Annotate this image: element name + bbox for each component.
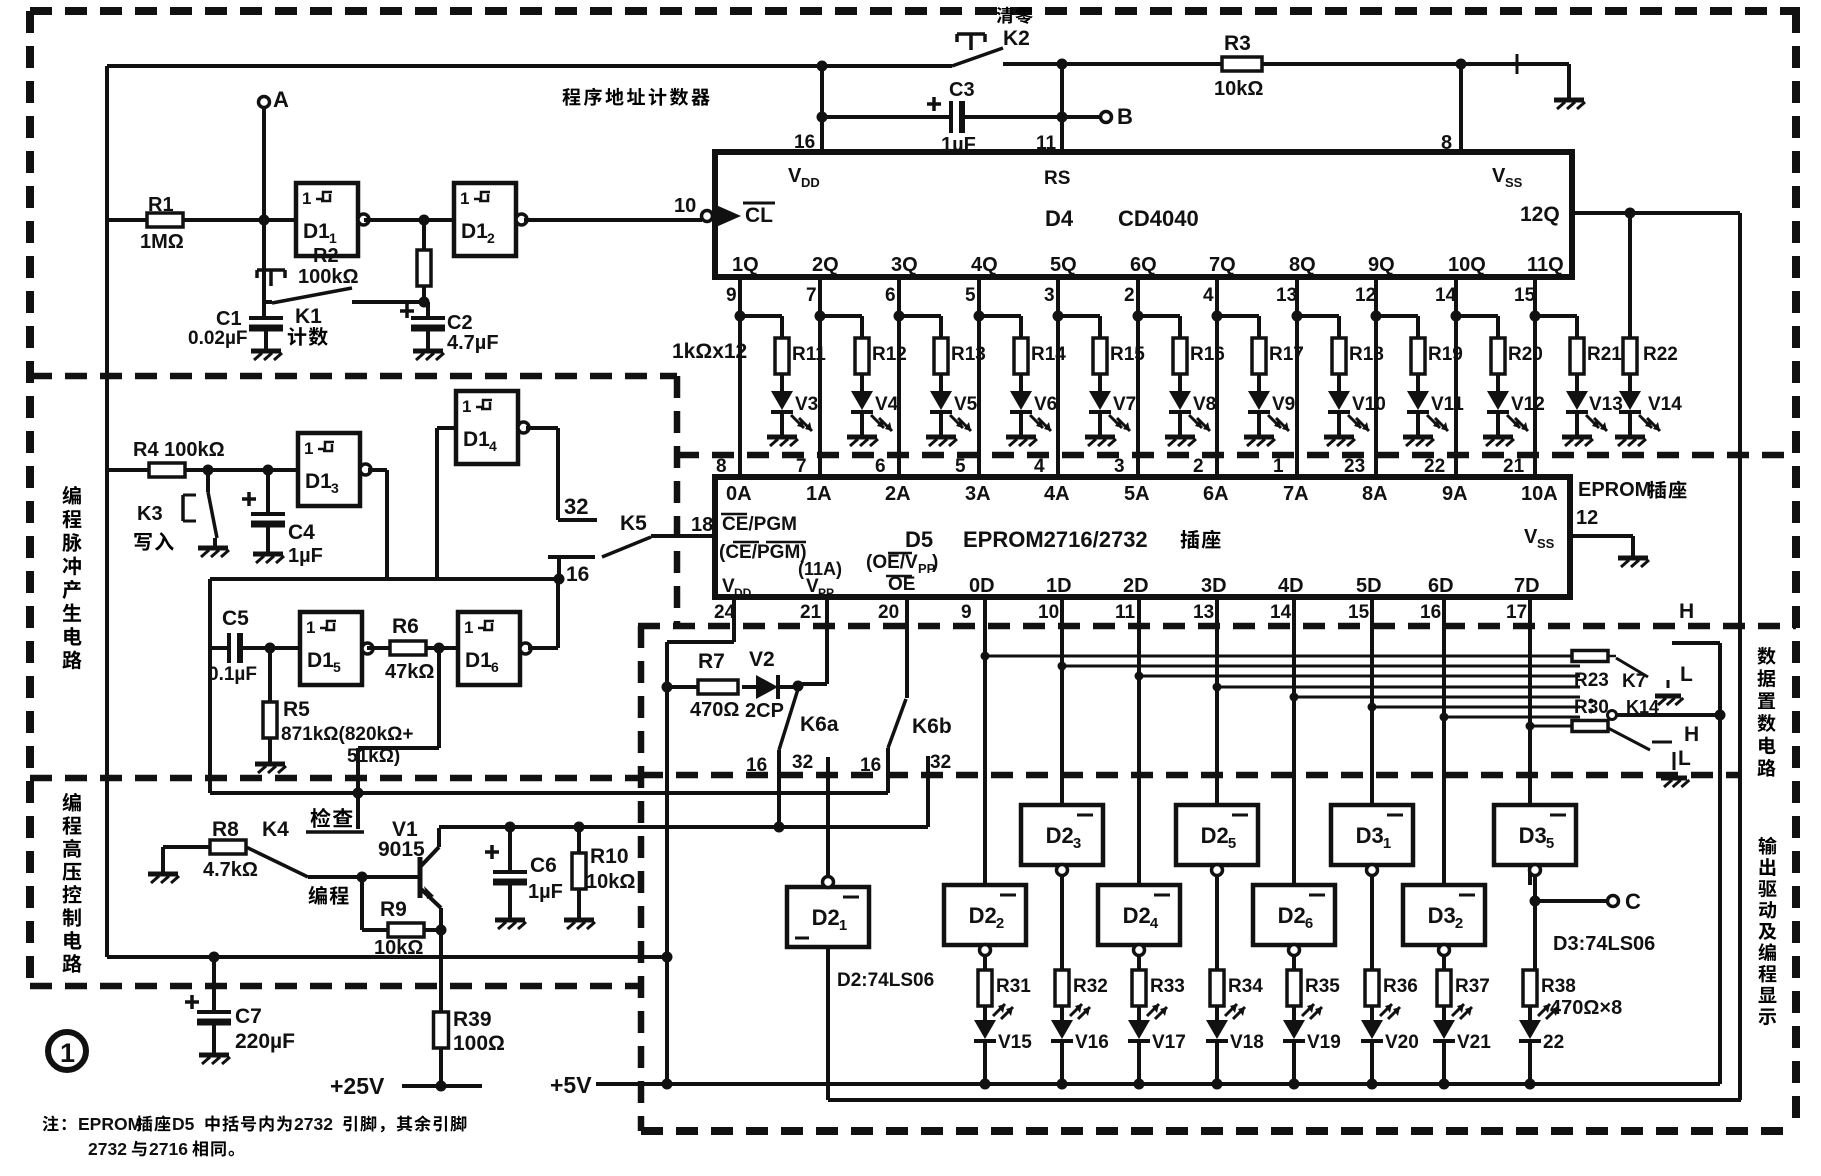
svg-text:1A: 1A: [806, 483, 832, 505]
resistor R4: [149, 463, 185, 477]
svg-text:D2:74LS06: D2:74LS06: [837, 970, 934, 991]
svg-text:5A: 5A: [1124, 483, 1150, 505]
switch K2 (clear): [957, 32, 985, 36]
svg-text:R31: R31: [996, 976, 1031, 997]
svg-text:7Q: 7Q: [1209, 254, 1236, 276]
label programming high-voltage control block: [62, 793, 80, 812]
svg-text:16: 16: [566, 563, 589, 586]
contact 32 of K5: [558, 518, 597, 522]
LED V18: [1215, 1006, 1219, 1020]
wire D24 output: [1137, 956, 1141, 970]
svg-text:V10: V10: [1352, 394, 1386, 415]
svg-text:5Q: 5Q: [1050, 254, 1077, 276]
LED V12: [1496, 374, 1500, 391]
LED V21: [1442, 1006, 1446, 1020]
svg-text:V5: V5: [954, 394, 978, 415]
IC D5 EPROM2716/2732 socket: [715, 477, 1570, 597]
wire D4 2Q to D5 1A (pin 7): [818, 277, 822, 477]
label programming pulse generator block: [62, 486, 80, 505]
svg-text:V21: V21: [1457, 1032, 1491, 1053]
svg-text:7D: 7D: [1514, 575, 1540, 597]
wire data 7D down: [1528, 597, 1532, 885]
svg-text:(CE/PGM): (CE/PGM): [719, 542, 807, 563]
svg-text:10: 10: [1038, 602, 1059, 623]
svg-text:2716: 2716: [149, 1139, 188, 1159]
ground under C1: [251, 349, 281, 354]
wire data 2D fan: [1139, 675, 1580, 678]
svg-text:R4 100kΩ: R4 100kΩ: [133, 439, 225, 461]
wire node A vertical: [262, 107, 266, 315]
switch K6a: [779, 689, 798, 750]
ground under V9: [1257, 412, 1261, 437]
svg-text:R33: R33: [1150, 976, 1185, 997]
svg-text:D1: D1: [307, 649, 334, 672]
wire data 3D down: [1215, 597, 1219, 805]
diode V2 2CP: [742, 685, 756, 689]
dashed partition below high-voltage-control block: [30, 983, 641, 990]
svg-text:CD4040: CD4040: [1118, 206, 1199, 231]
LED V14: [1628, 374, 1632, 391]
wire pulse output to check loop: [437, 648, 441, 748]
svg-text:2D: 2D: [1123, 575, 1149, 597]
resistor R23: [1572, 651, 1608, 662]
svg-text:C7: C7: [235, 1005, 262, 1028]
capacitor C5: [208, 579, 212, 793]
wire data 0D down: [983, 597, 987, 885]
svg-text:SS: SS: [1537, 536, 1555, 551]
svg-text:6A: 6A: [1203, 483, 1229, 505]
LED V19: [1292, 1006, 1296, 1020]
svg-text:R14: R14: [1031, 344, 1066, 365]
wire C3 branch vertical pin16: [820, 66, 824, 152]
gate D35: [1494, 805, 1576, 865]
dashed partition above EPROM socket: [677, 452, 1796, 459]
svg-text:4A: 4A: [1044, 483, 1070, 505]
svg-text:D3:74LS06: D3:74LS06: [1553, 933, 1655, 955]
resistor R21: [1535, 314, 1577, 318]
svg-text:1: 1: [462, 397, 471, 416]
svg-text:R12: R12: [872, 344, 907, 365]
contact 32 of K6a: [826, 757, 830, 877]
svg-text:K1: K1: [295, 305, 322, 328]
svg-text:3: 3: [1044, 285, 1055, 306]
svg-text:SS: SS: [1505, 175, 1523, 190]
svg-text:V2: V2: [749, 648, 775, 671]
svg-text:V: V: [1492, 165, 1506, 187]
svg-text:R34: R34: [1228, 976, 1263, 997]
svg-text:R21: R21: [1587, 344, 1622, 365]
ground top right: [1554, 98, 1584, 103]
wire data 6D down: [1442, 597, 1446, 885]
svg-text:V17: V17: [1152, 1032, 1186, 1053]
svg-text:D2: D2: [812, 905, 840, 930]
svg-text:R38: R38: [1541, 976, 1576, 997]
dashed partition program-address-counter / pulse blocks: [30, 373, 677, 380]
svg-text:7: 7: [796, 456, 807, 477]
svg-text:1: 1: [1383, 835, 1391, 852]
svg-text:V15: V15: [998, 1032, 1032, 1053]
svg-text:R37: R37: [1455, 976, 1490, 997]
svg-text:H: H: [1679, 600, 1694, 623]
svg-text:3: 3: [331, 480, 339, 496]
LED V3: [780, 374, 784, 391]
node C: [1530, 896, 1541, 907]
svg-text:R5: R5: [283, 698, 310, 721]
svg-text:5: 5: [965, 285, 976, 306]
resistor R17: [1217, 314, 1259, 318]
wire D1_4 input: [437, 426, 456, 430]
svg-text:1MΩ: 1MΩ: [140, 231, 184, 253]
svg-text:+5V: +5V: [550, 1072, 592, 1098]
svg-text:16: 16: [1420, 602, 1441, 623]
svg-text:3A: 3A: [965, 483, 991, 505]
svg-text:2: 2: [1455, 915, 1463, 932]
wire pin8 vertical: [1456, 59, 1467, 70]
LED V16: [1060, 1006, 1064, 1020]
svg-text:1: 1: [304, 439, 313, 458]
wire collector rail 25V: [439, 825, 928, 829]
svg-text:5: 5: [333, 659, 341, 675]
ground left of R8: [163, 845, 210, 849]
svg-text:18: 18: [691, 514, 713, 536]
capacitor C3: [822, 115, 950, 119]
svg-text:13: 13: [1193, 602, 1214, 623]
svg-text:V11: V11: [1431, 394, 1464, 415]
resistor R18: [1297, 314, 1339, 318]
wire 12Q output loop: [1572, 211, 1740, 215]
svg-text:9: 9: [726, 285, 737, 306]
svg-text:R18: R18: [1349, 344, 1384, 365]
resistor R34: [1210, 970, 1224, 1006]
LED V17: [1137, 1006, 1141, 1020]
capacitor C6: [508, 827, 512, 870]
svg-text:6Q: 6Q: [1130, 254, 1157, 276]
svg-text:C4: C4: [288, 521, 315, 544]
svg-text:V9: V9: [1272, 394, 1295, 415]
wire LED V19 to +5V rail: [1292, 1041, 1296, 1084]
ground under C6: [495, 918, 525, 923]
wire D1_3 output down: [368, 468, 387, 472]
switch K14: [1608, 728, 1650, 750]
svg-text:21: 21: [1503, 456, 1525, 477]
resistor R8: [210, 840, 246, 854]
wire R1 to D1_1: [107, 218, 147, 222]
svg-text:B: B: [1117, 104, 1133, 129]
svg-text:100Ω: 100Ω: [453, 1032, 505, 1055]
resistor R15: [1058, 314, 1100, 318]
svg-text:1: 1: [302, 189, 311, 208]
dots ellipsis: [1589, 699, 1594, 704]
resistor R36: [1365, 970, 1379, 1006]
svg-text:D5: D5: [172, 1114, 195, 1134]
svg-text:+25V: +25V: [330, 1073, 385, 1099]
note text bottom: [43, 1115, 59, 1131]
wire D4 6Q to D5 5A (pin 3): [1136, 277, 1140, 477]
svg-text:EPROM: EPROM: [78, 1114, 142, 1134]
wire data 3D fan: [1217, 686, 1580, 689]
wire data 7D fan: [1530, 725, 1572, 728]
svg-text:23: 23: [1344, 456, 1365, 477]
pin 10 clock input: [716, 205, 741, 227]
label output driver and program display block: [1759, 837, 1777, 855]
wire VDD pin24 to +5V: [732, 597, 736, 642]
svg-text:5: 5: [1546, 835, 1554, 852]
svg-text:V19: V19: [1307, 1032, 1341, 1053]
svg-text:871kΩ(820kΩ+: 871kΩ(820kΩ+: [281, 724, 413, 745]
ground under V5: [939, 412, 943, 437]
svg-text:1: 1: [464, 618, 473, 637]
contact 32 of K6b: [926, 756, 930, 827]
ground under V7: [1098, 412, 1102, 437]
ground under C4: [253, 552, 283, 557]
resistor R30: [1572, 721, 1608, 732]
svg-text:1D: 1D: [1046, 575, 1072, 597]
inverter D1_3: [298, 433, 360, 506]
dashed partition below EPROM socket: [638, 623, 1796, 630]
svg-text:10A: 10A: [1521, 483, 1558, 505]
wire LED V20 to +5V rail: [1370, 1041, 1374, 1084]
node B: [1057, 112, 1068, 123]
resistor R9: [360, 877, 364, 930]
svg-text:10Q: 10Q: [1448, 254, 1486, 276]
svg-text:1: 1: [460, 189, 469, 208]
ground under V6: [1019, 412, 1023, 437]
svg-text:V12: V12: [1511, 394, 1545, 415]
svg-text:1µF: 1µF: [528, 881, 563, 903]
svg-text:K6a: K6a: [800, 713, 839, 736]
svg-text:C6: C6: [530, 854, 557, 877]
wire D22 output: [983, 956, 987, 970]
LED V15: [983, 1006, 987, 1020]
svg-text:R2: R2: [313, 245, 339, 267]
svg-text:D4: D4: [1045, 206, 1074, 231]
LED V8: [1178, 374, 1182, 391]
inverter D1_6: [458, 612, 520, 685]
resistor R13: [899, 314, 941, 318]
resistor R20: [1456, 314, 1498, 318]
svg-text:V20: V20: [1385, 1032, 1419, 1053]
LED V5: [939, 374, 943, 391]
svg-text:K3: K3: [137, 503, 163, 525]
LED V20: [1370, 1006, 1374, 1020]
svg-text:16: 16: [860, 755, 881, 776]
svg-text:R9: R9: [380, 898, 407, 921]
wire data 5D down: [1370, 597, 1374, 805]
svg-text:4.7µF: 4.7µF: [447, 332, 499, 354]
svg-text:L: L: [1680, 663, 1693, 686]
svg-text:R30: R30: [1574, 697, 1609, 718]
resistor R5: [268, 648, 272, 702]
wire D35 output: [1533, 876, 1537, 970]
svg-text:3: 3: [1073, 835, 1081, 852]
switch K3 (write): [206, 470, 210, 492]
ground under V4: [860, 412, 864, 437]
svg-text:DD: DD: [801, 175, 820, 190]
svg-text:D2: D2: [1278, 903, 1306, 928]
wire LED V17 to +5V rail: [1137, 1041, 1141, 1084]
svg-text:K6b: K6b: [912, 715, 952, 738]
svg-text:100kΩ: 100kΩ: [298, 266, 359, 288]
svg-text:D3: D3: [1356, 823, 1384, 848]
svg-text:0.02µF: 0.02µF: [188, 328, 248, 349]
svg-text:R10: R10: [590, 845, 629, 868]
svg-text:7A: 7A: [1283, 483, 1309, 505]
svg-text:0A: 0A: [726, 483, 752, 505]
svg-text:D2: D2: [1123, 903, 1151, 928]
resistor R11: [740, 314, 782, 318]
capacitor C4: [266, 470, 270, 512]
LED V7: [1098, 374, 1102, 391]
resistor R7: [667, 685, 698, 689]
svg-text:(OE/V: (OE/V: [866, 552, 918, 573]
svg-text:D1: D1: [463, 428, 490, 451]
ground under V13: [1575, 412, 1579, 437]
svg-text:R22: R22: [1643, 344, 1678, 365]
capacitor C2: [426, 302, 430, 316]
svg-text:CL: CL: [745, 204, 773, 227]
gate D32: [1403, 885, 1485, 945]
svg-text:8A: 8A: [1362, 483, 1388, 505]
svg-text:DD: DD: [734, 586, 752, 600]
svg-text:1µF: 1µF: [288, 545, 323, 567]
svg-text:K2: K2: [1003, 27, 1030, 50]
svg-text:4: 4: [1203, 285, 1214, 306]
wire OE pin20 down: [905, 597, 909, 698]
LED V9: [1257, 374, 1261, 391]
svg-text:6D: 6D: [1428, 575, 1454, 597]
wire data 2D down: [1137, 597, 1141, 885]
svg-text:20: 20: [878, 602, 899, 623]
svg-text:(11A): (11A): [798, 559, 842, 579]
svg-text:RS: RS: [1044, 168, 1070, 189]
LED V4: [860, 374, 864, 391]
svg-text:R32: R32: [1073, 976, 1108, 997]
svg-text:12: 12: [1576, 507, 1598, 529]
resistor R2: [422, 220, 426, 250]
svg-text:D1: D1: [303, 220, 330, 243]
label check: [311, 808, 331, 828]
resistor R31: [978, 970, 992, 1006]
svg-text:D2: D2: [1201, 823, 1229, 848]
switch K5: [602, 537, 651, 557]
svg-text:C1: C1: [216, 308, 242, 330]
svg-text:4: 4: [1034, 456, 1045, 477]
wire D4 3Q to D5 2A (pin 6): [897, 277, 901, 477]
svg-text:1: 1: [306, 618, 315, 637]
LED V13: [1575, 374, 1579, 391]
resistor R16: [1138, 314, 1180, 318]
contact 16 of K5: [548, 555, 595, 559]
wire R4 line to D1_3: [107, 468, 149, 472]
svg-text:470Ω: 470Ω: [690, 699, 739, 721]
svg-text:8: 8: [716, 456, 727, 477]
svg-text:12: 12: [1355, 285, 1376, 306]
svg-text:): ): [932, 552, 938, 573]
wire data 4D down: [1292, 597, 1296, 885]
svg-text:1: 1: [1273, 456, 1284, 477]
wire LED V16 to +5V rail: [1060, 1041, 1064, 1084]
resistor R1: [147, 213, 183, 227]
contact 16 of K6a: [777, 750, 781, 827]
svg-text:9Q: 9Q: [1368, 254, 1395, 276]
svg-text:R20: R20: [1508, 344, 1543, 365]
svg-text:K4: K4: [262, 818, 289, 841]
gate D26: [1253, 885, 1335, 945]
svg-text:2732: 2732: [88, 1139, 127, 1159]
svg-text:12Q: 12Q: [1520, 203, 1560, 226]
resistor R10: [577, 827, 581, 853]
svg-text:D2: D2: [1046, 823, 1074, 848]
wire rail to ground: [1516, 54, 1519, 74]
inverter D1_2: [454, 183, 516, 256]
svg-text:21: 21: [800, 602, 822, 623]
svg-text:16: 16: [746, 755, 767, 776]
svg-text:C5: C5: [222, 607, 249, 630]
svg-text:14: 14: [1270, 602, 1292, 623]
svg-text:10: 10: [674, 195, 696, 217]
ground under V14: [1628, 412, 1632, 437]
wire data 4D fan: [1294, 696, 1580, 699]
svg-text:8Q: 8Q: [1289, 254, 1316, 276]
svg-text:R39: R39: [453, 1008, 492, 1031]
svg-text:H: H: [1684, 723, 1699, 746]
svg-text:A: A: [273, 87, 289, 112]
svg-text:9015: 9015: [378, 838, 425, 861]
wire D4 9Q to D5 8A (pin 23): [1374, 277, 1378, 477]
svg-text:D5: D5: [905, 527, 933, 552]
inverter D1_1: [296, 183, 358, 256]
svg-text:17: 17: [1506, 602, 1527, 623]
svg-text:220µF: 220µF: [235, 1030, 295, 1053]
resistor R37: [1437, 970, 1451, 1006]
svg-text:32: 32: [930, 752, 951, 773]
svg-text:2A: 2A: [885, 483, 911, 505]
svg-text:2: 2: [1193, 456, 1204, 477]
wire D23 output: [1060, 876, 1064, 970]
wire check line: [210, 791, 888, 795]
svg-text:R23: R23: [1574, 670, 1609, 691]
ground under V8: [1178, 412, 1182, 437]
svg-text:1kΩx12: 1kΩx12: [672, 340, 747, 363]
svg-text:1Q: 1Q: [732, 254, 759, 276]
svg-text:4: 4: [1150, 915, 1159, 932]
svg-text:V14: V14: [1648, 394, 1682, 415]
gate D31: [1331, 805, 1413, 865]
svg-text:10kΩ: 10kΩ: [586, 871, 635, 893]
wire LED V15 to +5V rail: [983, 1041, 987, 1084]
svg-text:9A: 9A: [1442, 483, 1468, 505]
inverter D1_5: [300, 612, 362, 685]
svg-text:4: 4: [489, 438, 497, 454]
svg-text:3D: 3D: [1201, 575, 1227, 597]
dashed partition mid horizontal: [30, 775, 641, 782]
svg-text:2CP: 2CP: [745, 700, 784, 722]
svg-text:V16: V16: [1075, 1032, 1109, 1053]
ground under V10: [1337, 412, 1341, 437]
svg-text:EPROM2716/2732: EPROM2716/2732: [963, 527, 1148, 552]
svg-text:6: 6: [1305, 915, 1313, 932]
svg-text:D2: D2: [969, 903, 997, 928]
svg-text:6: 6: [885, 285, 896, 306]
ground under R5: [268, 738, 272, 764]
svg-text:10kΩ: 10kΩ: [1214, 78, 1263, 100]
switch K4: [246, 847, 308, 877]
svg-text:15: 15: [1514, 285, 1536, 306]
svg-text:5: 5: [1228, 835, 1236, 852]
wire D4 8Q to D5 7A (pin 1): [1295, 277, 1299, 477]
svg-text:32: 32: [564, 494, 588, 519]
svg-text:V4: V4: [875, 394, 899, 415]
